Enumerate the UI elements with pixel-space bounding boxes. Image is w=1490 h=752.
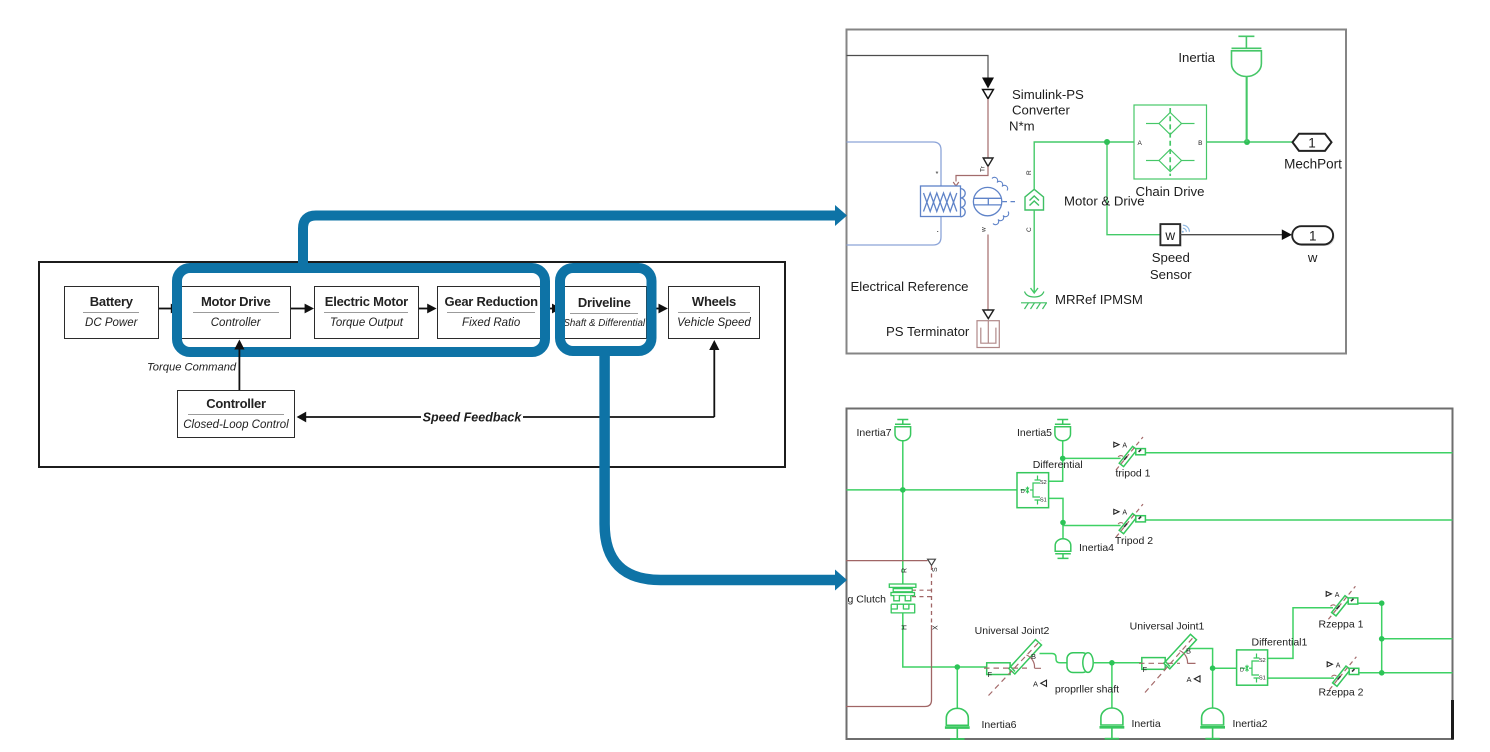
- panel frame: [847, 409, 1453, 740]
- Inertia branch: [1111, 663, 1113, 708]
- wire sensor to outport: [1180, 234, 1282, 236]
- motor stator box: [921, 177, 1017, 224]
- MechPort hexagon: [1293, 134, 1332, 151]
- block Motor Drive: [180, 286, 291, 339]
- converter PS wire down: [987, 99, 989, 158]
- block Controller: [177, 390, 295, 438]
- PS Terminator block: [977, 321, 999, 348]
- highlight group 1: [177, 268, 545, 352]
- arrow Electric Motor to Gear Reduction: [419, 308, 429, 310]
- Inertia block: [1232, 36, 1262, 142]
- block Gear Reduction: [437, 286, 546, 339]
- main input wire to Differential D: [847, 489, 1018, 491]
- wire to Tr port: [956, 166, 988, 181]
- Inertia4 block (flipped): [1055, 539, 1071, 559]
- Inertia7 / clutch vertical wire: [902, 441, 904, 584]
- shaft to UJ1 wire: [1094, 662, 1142, 664]
- highlight Driveline: [560, 268, 652, 351]
- Rzeppa 2 output wire: [1359, 672, 1382, 674]
- arrow Driveline to Wheels: [647, 308, 660, 310]
- inertia Inertia2: [1200, 708, 1225, 739]
- maroon dashes to clutch: [912, 590, 932, 596]
- clutch to UJ2 wire: [903, 613, 990, 667]
- universal joint 2: [984, 640, 1047, 696]
- block Driveline: [561, 286, 647, 339]
- rotor circle: [973, 187, 1001, 215]
- PS port triangle: [983, 158, 993, 166]
- arrow Motor Drive to Electric Motor: [291, 308, 306, 310]
- Inertia7 block: [895, 420, 911, 441]
- inertia Inertia6: [945, 708, 970, 739]
- green wires: [847, 441, 1453, 708]
- squiggle bottom: [993, 212, 1009, 225]
- wire B to MechPort: [1207, 141, 1293, 143]
- S1 wire to Rzeppa 2: [1268, 677, 1334, 679]
- joint tripod 1: [1114, 437, 1146, 470]
- tripod 1 output wire: [1146, 452, 1453, 454]
- block Electric Motor: [314, 286, 419, 339]
- panel frame: [847, 30, 1347, 354]
- dashed shaft link: [1003, 201, 1017, 203]
- Chain Drive block: [1134, 105, 1207, 179]
- arrow Controller to Motor Drive: [238, 346, 240, 390]
- winding arcs: [961, 189, 966, 217]
- Inertia6 branch: [956, 667, 958, 708]
- simulink arrow into converter: [982, 78, 994, 89]
- IPMSM machine block: [1025, 189, 1044, 210]
- speed feedback wire: [306, 416, 421, 418]
- wireless badge: [1182, 225, 1190, 233]
- S2 wire to Rzeppa 1: [1268, 608, 1333, 659]
- blue connector to bottom panel: [605, 349, 836, 580]
- joint Rzeppa 2: [1327, 657, 1359, 690]
- Inertia4 stem: [1062, 526, 1064, 540]
- universal joint 1: [1139, 634, 1200, 692]
- converter input port triangle: [983, 90, 994, 99]
- electrical reference loop: [847, 142, 942, 186]
- joint Tripod 2: [1114, 504, 1146, 537]
- arrow Battery to Motor Drive: [159, 304, 719, 423]
- Differential1 block: [1237, 650, 1268, 685]
- Inertia5 block: [1055, 420, 1071, 441]
- axle wire upper: [1382, 638, 1453, 640]
- arrow Gear Reduction to Driveline: [546, 308, 554, 310]
- junction dot: [1104, 139, 1110, 145]
- dog clutch block: [889, 584, 916, 613]
- maroon clutch control frame: [846, 561, 932, 707]
- block Wheels: [668, 286, 760, 339]
- junction dots: [900, 456, 1384, 676]
- green wires machine to chain drive: [1031, 142, 1161, 293]
- MRRef ground symbol: [1021, 292, 1047, 310]
- Speed Sensor block: [1162, 226, 1182, 247]
- block Battery: [64, 286, 160, 339]
- wire w to terminator: [987, 235, 989, 310]
- S1 wire to Tripod 2: [1049, 498, 1121, 525]
- joint Rzeppa 1: [1326, 586, 1358, 619]
- Differential block: [1017, 473, 1049, 508]
- blue connector to top panel: [303, 216, 836, 264]
- axle wire lower: [1382, 672, 1453, 674]
- port triangle S: [928, 559, 936, 565]
- Rzeppa 1 output wire: [1358, 603, 1382, 673]
- UJ2 to shaft wire: [1040, 654, 1068, 663]
- Inertia2 branch: [1212, 668, 1214, 708]
- propeller shaft: [1067, 653, 1093, 673]
- outport w: [1294, 228, 1335, 246]
- outer frame of flow diagram: [39, 262, 785, 467]
- Tripod 2 output wire: [1146, 519, 1453, 521]
- inertia Inertia: [1100, 708, 1125, 739]
- wire signal from subsystem edge: [847, 56, 989, 78]
- Inertia5 stem: [1062, 441, 1064, 458]
- terminator port triangle: [983, 310, 994, 319]
- UJ1 to Differential1 wire: [1188, 649, 1237, 669]
- S2 wire to tripod 1: [1049, 458, 1121, 481]
- squiggle top: [992, 177, 1008, 190]
